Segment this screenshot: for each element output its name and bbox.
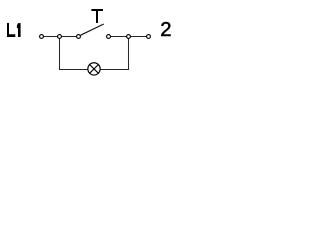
wire L1 to junction bbox=[44, 36, 58, 38]
wire switch contact to right junction bbox=[111, 36, 127, 38]
wire left drop to lamp bbox=[60, 39, 89, 70]
terminal circle left junction bbox=[58, 35, 62, 39]
terminal circle right junction bbox=[127, 35, 131, 39]
wire right junction to 2 bbox=[130, 36, 146, 38]
lamp E1 bbox=[88, 63, 100, 75]
switch S blade bbox=[81, 24, 104, 35]
terminal circle switch contact bbox=[107, 35, 111, 39]
wire junction to switch pivot bbox=[61, 36, 76, 38]
switch label T bbox=[91, 9, 103, 23]
terminal circle 2 bbox=[147, 35, 151, 39]
svg-text:2: 2 bbox=[160, 19, 171, 41]
node L1 bbox=[7, 23, 21, 37]
terminal circle L1 bbox=[40, 35, 44, 39]
terminal circle switch pivot bbox=[77, 35, 81, 39]
wire right drop to lamp bbox=[100, 39, 129, 70]
